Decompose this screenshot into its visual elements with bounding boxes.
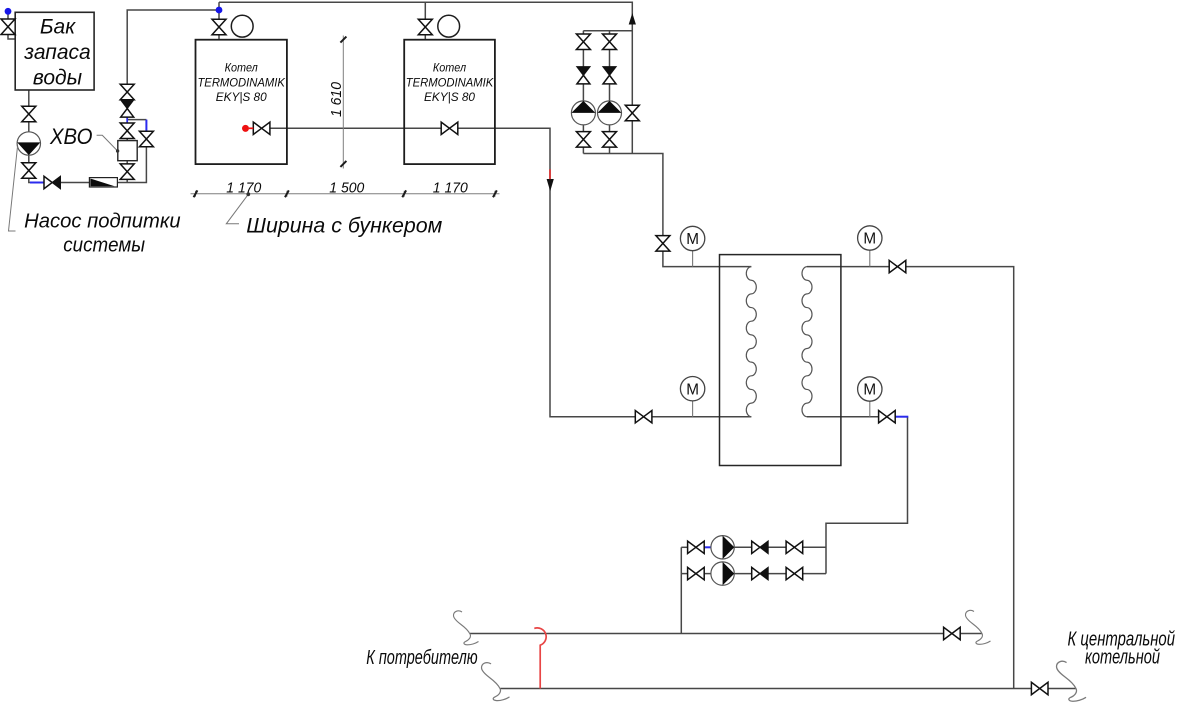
svg-text:Котел: Котел: [433, 61, 466, 75]
svg-text:TERMODINAMIK: TERMODINAMIK: [406, 75, 494, 89]
svg-text:воды: воды: [33, 67, 83, 90]
svg-text:EKY|S 80: EKY|S 80: [216, 90, 267, 104]
svg-text:EKY|S 80: EKY|S 80: [424, 90, 475, 104]
svg-text:К потребителю: К потребителю: [366, 647, 477, 669]
svg-text:котельной: котельной: [1085, 647, 1160, 669]
svg-text:1 170: 1 170: [226, 180, 261, 196]
svg-text:Насос подпитки: Насос подпитки: [24, 211, 181, 233]
svg-text:1 610: 1 610: [329, 82, 345, 117]
svg-text:ХВО: ХВО: [49, 124, 92, 149]
svg-text:системы: системы: [63, 235, 145, 257]
svg-text:TERMODINAMIK: TERMODINAMIK: [197, 75, 285, 89]
svg-text:1 500: 1 500: [329, 180, 364, 196]
svg-text:запаса: запаса: [23, 41, 90, 64]
svg-text:Бак: Бак: [40, 15, 76, 38]
svg-text:1 170: 1 170: [433, 180, 468, 196]
svg-text:M: M: [686, 231, 699, 248]
svg-text:M: M: [863, 231, 876, 248]
svg-text:Котел: Котел: [225, 61, 258, 75]
svg-text:Ширина с бункером: Ширина с бункером: [246, 215, 442, 238]
svg-text:M: M: [686, 381, 699, 398]
svg-text:M: M: [863, 382, 876, 399]
